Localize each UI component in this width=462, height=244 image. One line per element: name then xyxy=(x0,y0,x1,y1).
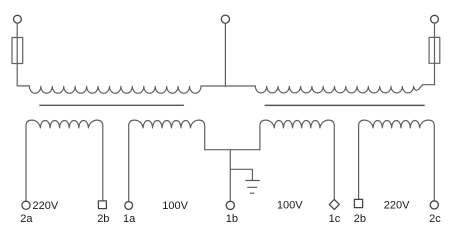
terminal circle 1b xyxy=(226,201,234,209)
terminal circle 1a xyxy=(125,202,133,210)
terminal diamond 1c xyxy=(329,199,339,209)
terminal square 2b right xyxy=(354,199,362,207)
fuse F1 left xyxy=(12,38,23,64)
svg-text:220V: 220V xyxy=(33,200,59,212)
wire center tap up to top-center terminal xyxy=(224,23,226,86)
terminal square 2b left xyxy=(98,201,106,209)
core line right xyxy=(265,104,424,106)
svg-text:2b: 2b xyxy=(97,213,109,225)
fuse F2 right xyxy=(429,37,440,63)
wire 1b tap down from bus xyxy=(229,150,231,202)
svg-text:100V: 100V xyxy=(277,200,303,212)
secondary winding 1a (100V left) xyxy=(129,120,205,202)
svg-text:1b: 1b xyxy=(226,213,238,225)
svg-text:220V: 220V xyxy=(384,200,410,212)
wire left fuse down to primary winding xyxy=(17,64,29,86)
core line left xyxy=(40,104,184,106)
svg-text:2b: 2b xyxy=(354,213,366,225)
secondary winding 2b-2c (220V right) xyxy=(359,120,435,201)
svg-text:2c: 2c xyxy=(429,213,441,225)
wire right fuse to top-right terminal xyxy=(434,23,436,37)
terminal circle top-right xyxy=(431,15,439,23)
svg-text:1a: 1a xyxy=(123,213,136,225)
svg-text:2a: 2a xyxy=(20,213,33,225)
ground symbol xyxy=(246,181,259,194)
wire center-tap bus between primary halves xyxy=(201,85,255,87)
secondary winding 1c (100V right) xyxy=(260,120,334,199)
primary winding left half xyxy=(29,86,201,93)
terminal circle top-left xyxy=(14,15,22,23)
primary winding right half xyxy=(255,85,434,93)
wire top-left terminal to fuse xyxy=(16,23,18,37)
wire ground branch xyxy=(230,169,252,180)
secondary winding 2a-2b (220V) xyxy=(26,120,103,201)
terminal circle 2c xyxy=(430,201,438,209)
wire bottom bus between 100V windings xyxy=(205,149,260,151)
terminal circle 2a xyxy=(22,201,30,209)
wire right winding up to fuse xyxy=(434,63,436,85)
terminal circle top-center xyxy=(221,15,229,23)
svg-text:100V: 100V xyxy=(162,200,188,212)
svg-text:1c: 1c xyxy=(329,213,341,225)
